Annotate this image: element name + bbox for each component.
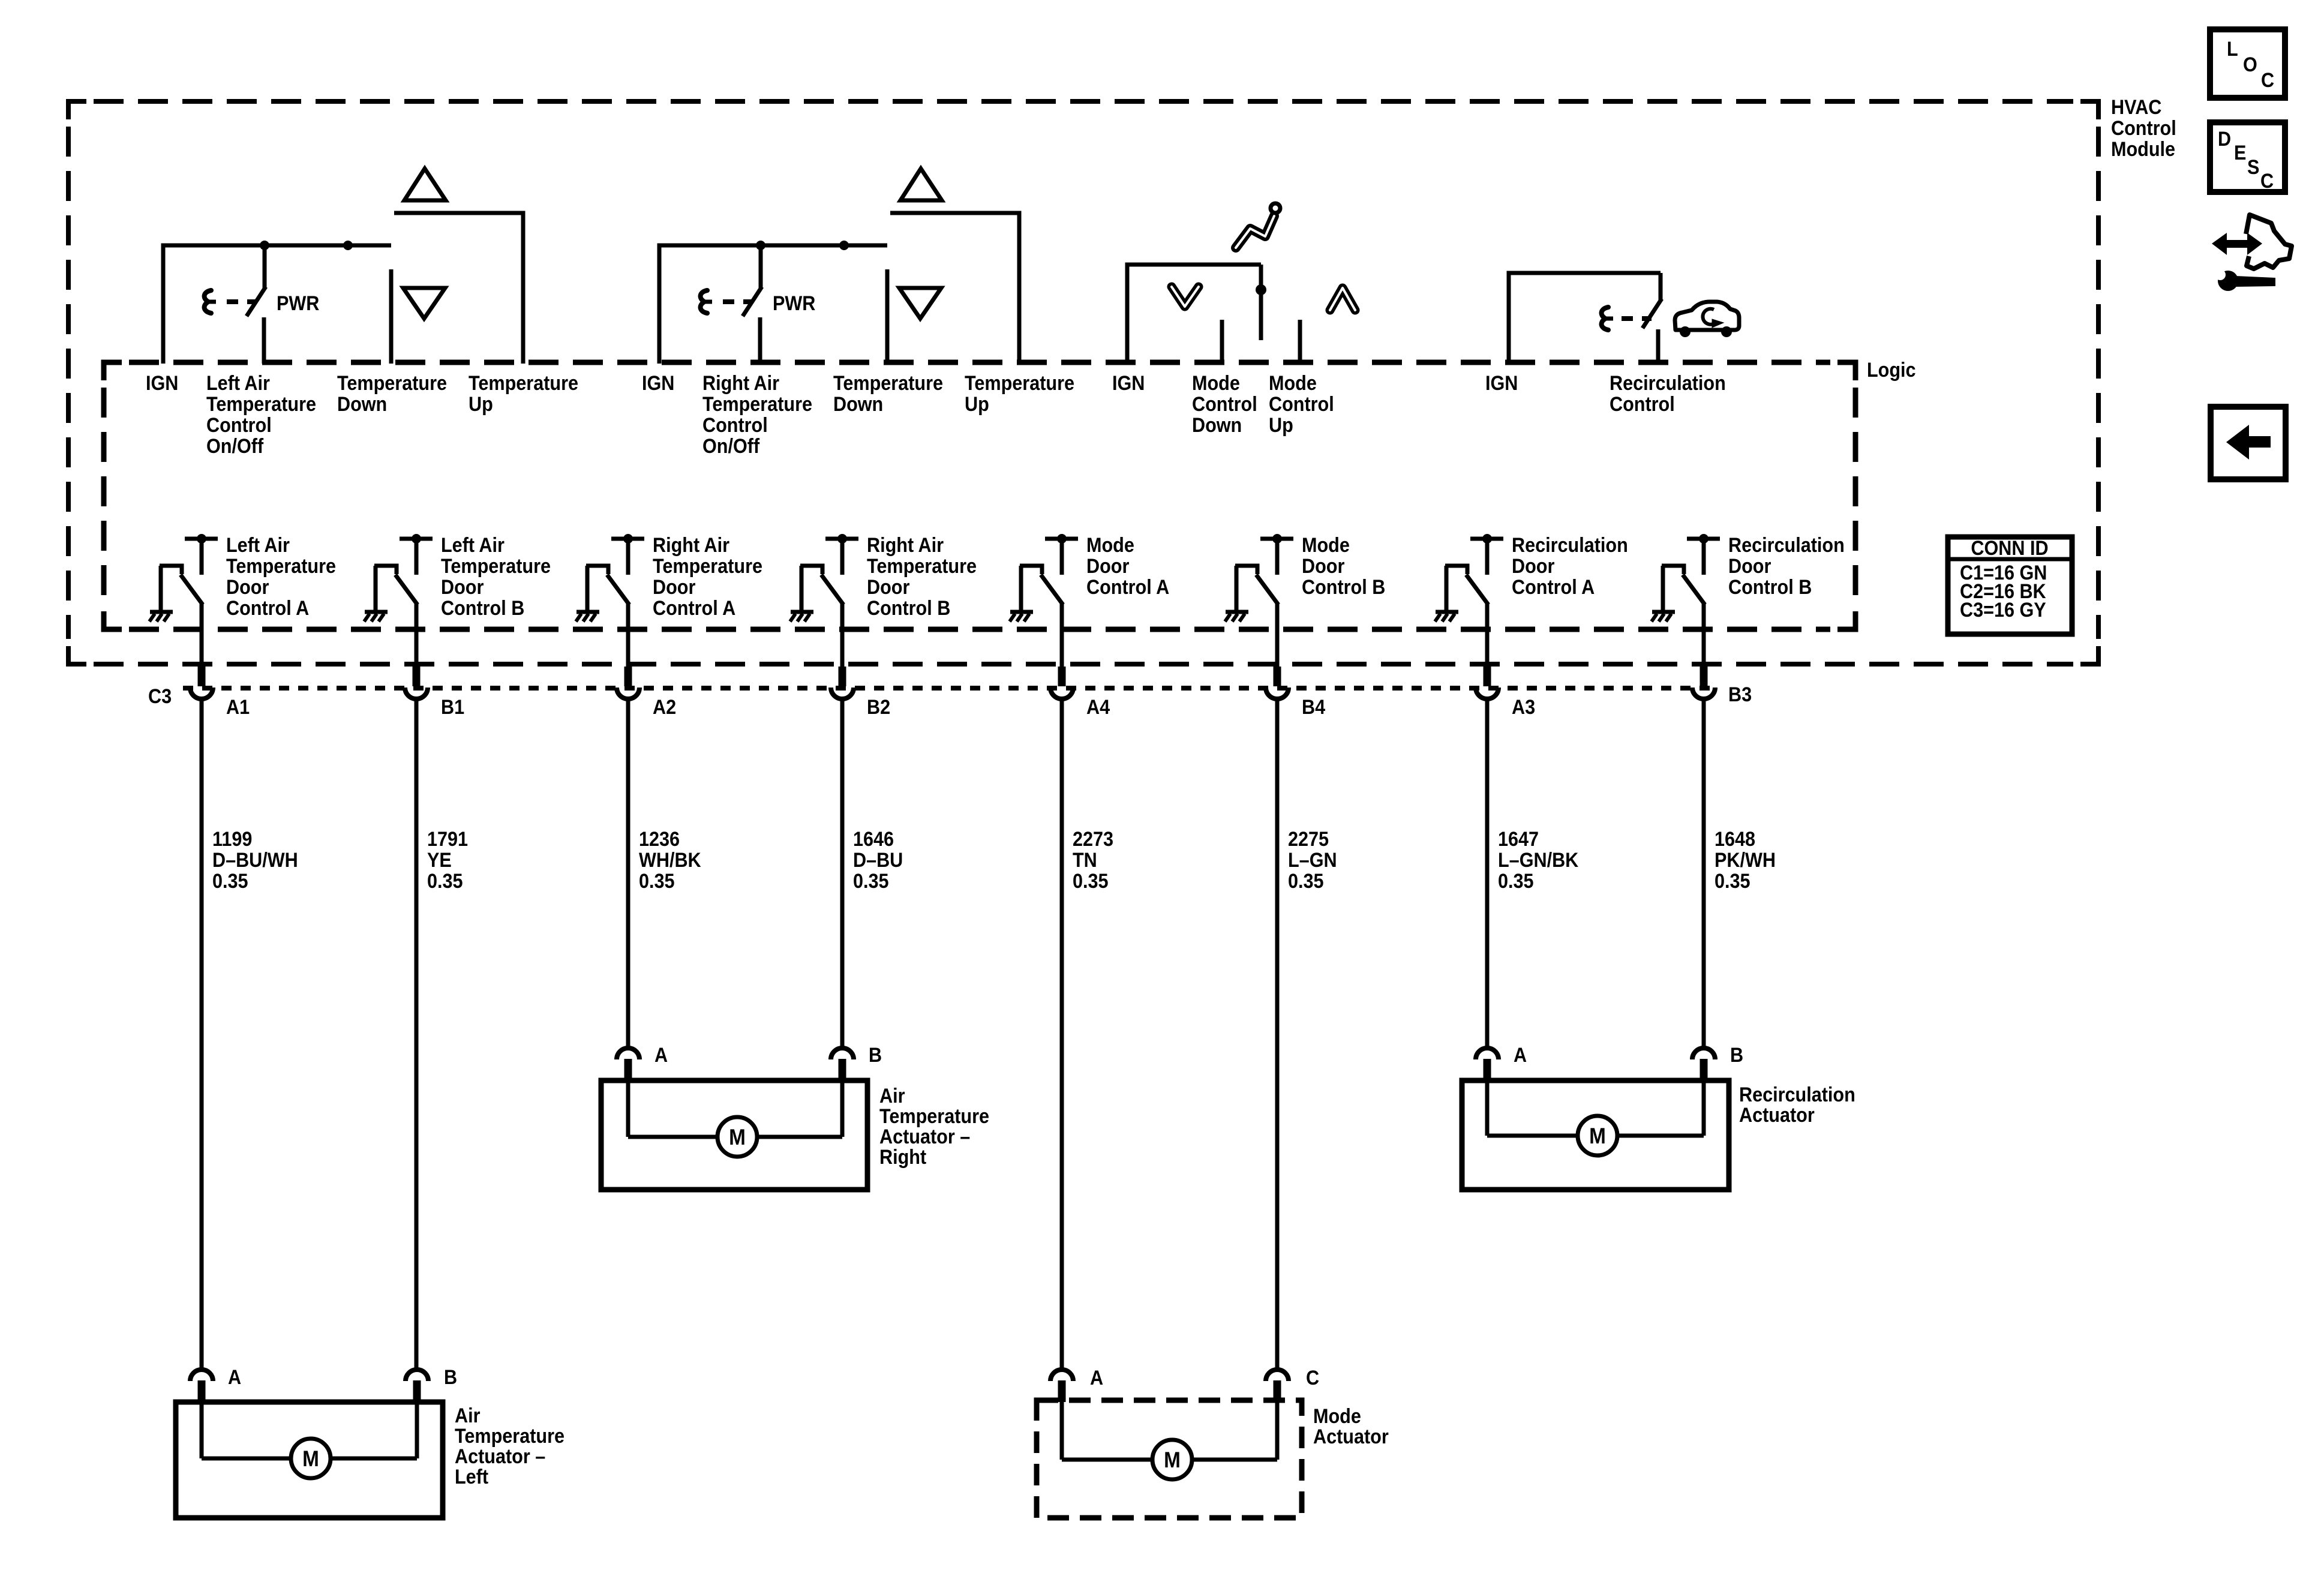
ground (driver 8): [1652, 610, 1675, 614]
svg-text:C3=16 GY: C3=16 GY: [1960, 599, 2046, 622]
svg-text:D–BU/WH: D–BU/WH: [212, 849, 298, 872]
svg-text:E: E: [2234, 142, 2246, 164]
inner dashed box: Logic: [104, 362, 122, 380]
connector socket B4: [1266, 688, 1289, 699]
svg-text:Recirculation: Recirculation: [1610, 372, 1726, 395]
connector socket B3: [1692, 688, 1715, 699]
svg-text:Door: Door: [1512, 555, 1555, 578]
switch: recirculation control: [1659, 273, 1663, 300]
driver switch: Right Air Temperature Door Control B: [825, 537, 858, 541]
node: mode pivot dot: [1256, 284, 1266, 295]
pin B3 male stub: [1700, 667, 1708, 686]
svg-text:Left: Left: [455, 1466, 488, 1488]
svg-text:IGN: IGN: [1485, 372, 1518, 395]
contact: Temperature Down (left): [389, 269, 394, 364]
svg-text:CONN ID: CONN ID: [1971, 537, 2048, 560]
svg-text:Control: Control: [702, 414, 768, 437]
svg-text:Down: Down: [1192, 414, 1242, 437]
svg-text:L: L: [2227, 38, 2238, 61]
ground (driver 5): [1010, 610, 1033, 614]
svg-text:D: D: [2218, 128, 2231, 151]
svg-text:Down: Down: [337, 393, 387, 416]
svg-text:Up: Up: [1269, 414, 1293, 437]
switch PWR (left air temperature control on/off): [263, 245, 267, 288]
svg-text:1647: 1647: [1498, 828, 1539, 851]
svg-text:C: C: [2261, 69, 2274, 92]
svg-text:TN: TN: [1073, 849, 1097, 872]
connector socket A1: [190, 688, 213, 699]
svg-text:Down: Down: [833, 393, 883, 416]
svg-text:Control A: Control A: [1086, 576, 1169, 599]
actuator: Recirculation Actuator (box): [1462, 1080, 1729, 1190]
svg-text:B2: B2: [867, 696, 890, 719]
svg-text:Door: Door: [441, 576, 484, 599]
icon: connector/wrench diagnostic symbol: [2212, 215, 2292, 291]
connector line C3 (dotted): [183, 686, 1716, 691]
svg-text:2275: 2275: [1288, 828, 1329, 851]
icon: up triangle (right temperature up): [900, 169, 942, 200]
connector socket A2: [617, 688, 639, 699]
svg-text:Air: Air: [879, 1085, 905, 1107]
driver switch: Left Air Temperature Door Control B: [400, 537, 433, 541]
ground (driver 2): [365, 610, 388, 614]
connector socket B1: [405, 688, 428, 699]
icon: seat (mode control): [1236, 216, 1274, 248]
svg-text:Control A: Control A: [1512, 576, 1595, 599]
svg-text:1646: 1646: [853, 828, 894, 851]
wire: circuit 1791 YE: [415, 698, 419, 1368]
svg-text:Control B: Control B: [867, 597, 950, 620]
svg-text:Temperature: Temperature: [965, 372, 1074, 395]
svg-text:Left Air: Left Air: [441, 534, 505, 557]
pin B1 male stub: [413, 667, 421, 686]
svg-text:S: S: [2247, 156, 2259, 179]
motor M (mode actuator): [1152, 1440, 1192, 1479]
actuator: Air Temperature Actuator - Right (box): [601, 1080, 867, 1190]
svg-text:Actuator –: Actuator –: [879, 1125, 970, 1148]
svg-text:Temperature: Temperature: [653, 555, 762, 578]
svg-text:O: O: [2243, 53, 2257, 76]
svg-text:A: A: [1514, 1044, 1527, 1067]
svg-text:Temperature: Temperature: [441, 555, 551, 578]
svg-text:C: C: [2260, 170, 2274, 193]
svg-text:B: B: [444, 1366, 457, 1389]
mechanical linkage symbol (left PWR switch): [205, 290, 211, 313]
wire: driver B3 down to connector: [1702, 603, 1706, 667]
pin A4 male stub: [1058, 667, 1066, 686]
svg-text:Control A: Control A: [653, 597, 735, 620]
node: junction dot 1 (left): [260, 241, 269, 250]
svg-text:Left Air: Left Air: [226, 534, 290, 557]
svg-text:Recirculation: Recirculation: [1739, 1083, 1855, 1106]
wire: Temperature Up branch (right): [890, 213, 1019, 364]
svg-text:Door: Door: [653, 576, 696, 599]
svg-text:WH/BK: WH/BK: [639, 849, 701, 872]
svg-text:YE: YE: [427, 849, 452, 872]
svg-text:Door: Door: [1086, 555, 1130, 578]
svg-text:PK/WH: PK/WH: [1715, 849, 1776, 872]
connector pin A (mode actuator): [1050, 1370, 1073, 1381]
svg-text:Up: Up: [965, 393, 989, 416]
svg-text:L–GN/BK: L–GN/BK: [1498, 849, 1579, 872]
driver switch: Mode Door Control A: [1045, 537, 1078, 541]
icon: chevron up (mode up): [1330, 288, 1355, 310]
ground (driver 1): [150, 610, 173, 614]
svg-text:Right Air: Right Air: [653, 534, 729, 557]
icon: chevron down (mode down): [1172, 287, 1199, 307]
icon: car with recirculation arrow: [1675, 302, 1739, 330]
svg-text:Control: Control: [1192, 393, 1257, 416]
svg-text:Right: Right: [879, 1146, 926, 1169]
svg-text:M: M: [1164, 1448, 1181, 1472]
motor M (recirculation actuator): [1578, 1116, 1617, 1155]
ground (driver 4): [791, 610, 813, 614]
svg-text:Actuator –: Actuator –: [455, 1445, 545, 1468]
driver switch: Recirculation Door Control A: [1470, 537, 1503, 541]
svg-text:1648: 1648: [1715, 828, 1755, 851]
svg-text:IGN: IGN: [642, 372, 674, 395]
node: junction dot 2 (left): [343, 241, 353, 250]
svg-text:0.35: 0.35: [1498, 870, 1534, 893]
driver switch: Left Air Temperature Door Control A: [185, 537, 218, 541]
icon: LOC box: [2210, 29, 2285, 98]
contact: Temperature Down (right): [885, 269, 890, 364]
mechanical linkage symbol (recirculation switch): [1602, 307, 1608, 330]
svg-text:A: A: [654, 1044, 668, 1067]
svg-text:M: M: [729, 1125, 746, 1149]
svg-text:B: B: [869, 1044, 882, 1067]
node: junction dot 2 (right): [839, 241, 849, 250]
svg-text:0.35: 0.35: [853, 870, 889, 893]
pin B2 male stub: [839, 667, 846, 686]
svg-text:On/Off: On/Off: [702, 435, 759, 458]
wire: driver B4 down to connector: [1275, 603, 1280, 667]
wire: circuit 2275 L–GN: [1275, 698, 1280, 1368]
wire: driver A1 down to connector: [200, 603, 204, 667]
svg-text:M: M: [302, 1446, 319, 1471]
svg-text:C: C: [1306, 1367, 1319, 1389]
svg-text:A2: A2: [653, 696, 676, 719]
icon: down triangle (right temperature down): [899, 288, 941, 319]
driver switch: Right Air Temperature Door Control A: [611, 537, 644, 541]
wire: driver A2 down to connector: [626, 603, 630, 667]
table: CONN ID: [1948, 537, 2072, 634]
svg-text:C3: C3: [148, 685, 172, 708]
pin A3 male stub: [1484, 667, 1491, 686]
pin B4 male stub: [1274, 667, 1281, 686]
svg-text:Temperature: Temperature: [337, 372, 447, 395]
svg-text:0.35: 0.35: [212, 870, 248, 893]
svg-text:0.35: 0.35: [1073, 870, 1109, 893]
wire: IGN riser (recirculation): [1509, 273, 1661, 364]
icon: down triangle (left temperature down): [403, 288, 445, 319]
svg-text:0.35: 0.35: [639, 870, 675, 893]
wire: IGN riser (left): [163, 245, 391, 364]
svg-text:Control B: Control B: [441, 597, 524, 620]
switch blade: mode rocker common: [1259, 265, 1263, 340]
svg-text:0.35: 0.35: [1288, 870, 1324, 893]
motor M (air temperature actuator right): [717, 1117, 757, 1157]
svg-text:Mode: Mode: [1302, 534, 1350, 557]
svg-text:IGN: IGN: [146, 372, 178, 395]
svg-text:PWR: PWR: [773, 292, 815, 315]
svg-text:HVAC: HVAC: [2111, 96, 2161, 119]
wire: circuit 1648 PK/WH: [1702, 698, 1706, 1047]
switch PWR (right air temperature control on/off): [759, 245, 763, 288]
svg-text:Left Air: Left Air: [206, 372, 270, 395]
svg-text:Control B: Control B: [1728, 576, 1812, 599]
connector pin C (mode actuator): [1266, 1370, 1289, 1381]
svg-text:Temperature: Temperature: [879, 1105, 989, 1128]
svg-text:Mode: Mode: [1192, 372, 1240, 395]
svg-text:Logic: Logic: [1867, 359, 1916, 382]
wire: driver B1 down to connector: [415, 603, 419, 667]
icon: DESC box: [2210, 122, 2285, 192]
connector socket B2: [831, 688, 854, 699]
svg-text:0.35: 0.35: [1715, 870, 1750, 893]
svg-text:Right Air: Right Air: [867, 534, 944, 557]
svg-text:Door: Door: [1728, 555, 1771, 578]
pin A2 male stub: [624, 667, 632, 686]
wire: IGN riser (right): [659, 245, 887, 364]
actuator: Mode Actuator (dashed box): [1037, 1400, 1302, 1518]
svg-text:B1: B1: [441, 696, 464, 719]
svg-text:Control: Control: [1610, 393, 1675, 416]
svg-text:Door: Door: [867, 576, 910, 599]
wire: driver B2 down to connector: [840, 603, 845, 667]
contact: Mode Control Down: [1220, 320, 1224, 364]
svg-text:IGN: IGN: [1112, 372, 1145, 395]
wire: IGN riser (mode): [1127, 265, 1261, 364]
actuator: Air Temperature Actuator - Left (box): [176, 1402, 443, 1518]
connector socket A3: [1476, 688, 1499, 699]
svg-text:Temperature: Temperature: [702, 393, 812, 416]
svg-text:Recirculation: Recirculation: [1728, 534, 1845, 557]
svg-text:Control: Control: [2111, 117, 2176, 140]
svg-text:A1: A1: [226, 696, 250, 719]
svg-text:PWR: PWR: [277, 292, 319, 315]
svg-text:Control B: Control B: [1302, 576, 1385, 599]
motor M (air temperature actuator left): [291, 1439, 331, 1478]
svg-text:Temperature: Temperature: [206, 393, 316, 416]
icon: left arrow box: [2211, 407, 2286, 479]
outer dashed box: HVAC Control Module: [68, 101, 86, 119]
svg-text:A: A: [228, 1366, 241, 1389]
svg-text:Control A: Control A: [226, 597, 309, 620]
svg-text:1236: 1236: [639, 828, 680, 851]
svg-text:2273: 2273: [1073, 828, 1113, 851]
wire: circuit 1647 L–GN/BK: [1485, 698, 1490, 1047]
svg-text:Mode: Mode: [1269, 372, 1317, 395]
svg-text:Air: Air: [455, 1404, 481, 1427]
svg-text:1199: 1199: [212, 828, 252, 851]
icon: up triangle (left temperature up): [404, 169, 446, 200]
svg-text:On/Off: On/Off: [206, 435, 263, 458]
driver switch: Mode Door Control B: [1260, 537, 1293, 541]
svg-text:B3: B3: [1728, 683, 1752, 706]
svg-text:Temperature: Temperature: [867, 555, 977, 578]
connector pin A (recirculation actuator): [1476, 1048, 1499, 1059]
wire: Temperature Up branch (left): [394, 213, 523, 364]
svg-text:1791: 1791: [427, 828, 468, 851]
svg-text:Control: Control: [1269, 393, 1334, 416]
svg-text:Temperature: Temperature: [469, 372, 578, 395]
svg-text:Module: Module: [2111, 138, 2175, 161]
svg-text:L–GN: L–GN: [1288, 849, 1337, 872]
svg-text:A3: A3: [1512, 696, 1535, 719]
wire: circuit 1236 WH/BK: [626, 698, 630, 1047]
svg-text:0.35: 0.35: [427, 870, 463, 893]
mechanical linkage symbol (right PWR switch): [701, 290, 707, 313]
svg-text:Temperature: Temperature: [226, 555, 336, 578]
svg-text:B: B: [1730, 1044, 1743, 1067]
svg-text:Temperature: Temperature: [833, 372, 943, 395]
svg-text:Up: Up: [469, 393, 493, 416]
wire: circuit 2273 TN: [1060, 698, 1064, 1368]
svg-text:Actuator: Actuator: [1313, 1425, 1389, 1448]
wire: driver A4 down to connector: [1060, 603, 1064, 667]
svg-text:B4: B4: [1302, 696, 1325, 719]
svg-text:A: A: [1090, 1367, 1103, 1389]
ground (driver 7): [1436, 610, 1458, 614]
svg-text:Door: Door: [226, 576, 269, 599]
contact: Mode Control Up: [1298, 320, 1302, 364]
svg-text:Door: Door: [1302, 555, 1345, 578]
connector pin B (right actuator): [831, 1048, 854, 1059]
wire: circuit 1646 D–BU: [840, 698, 845, 1047]
connector pin A (left actuator): [190, 1370, 213, 1381]
connector pin A (right actuator): [617, 1048, 639, 1059]
svg-text:Recirculation: Recirculation: [1512, 534, 1628, 557]
wire: circuit 1199 D–BU/WH: [200, 698, 204, 1368]
svg-text:Mode: Mode: [1313, 1405, 1361, 1428]
connector socket A4: [1050, 688, 1073, 699]
svg-text:A4: A4: [1086, 696, 1110, 719]
svg-text:M: M: [1589, 1124, 1606, 1148]
svg-text:Actuator: Actuator: [1739, 1104, 1815, 1127]
ground (driver 3): [577, 610, 599, 614]
driver switch: Recirculation Door Control B: [1687, 537, 1720, 541]
node: junction dot 1 (right): [756, 241, 765, 250]
svg-text:Mode: Mode: [1086, 534, 1134, 557]
connector pin B (left actuator): [406, 1370, 428, 1381]
svg-text:Temperature: Temperature: [455, 1425, 565, 1448]
svg-text:Control: Control: [206, 414, 272, 437]
pin A1 male stub: [198, 667, 206, 686]
svg-text:Right Air: Right Air: [702, 372, 779, 395]
svg-text:D–BU: D–BU: [853, 849, 903, 872]
ground (driver 6): [1226, 610, 1248, 614]
wire: driver A3 down to connector: [1485, 603, 1490, 667]
connector pin B (recirculation actuator): [1692, 1048, 1715, 1059]
